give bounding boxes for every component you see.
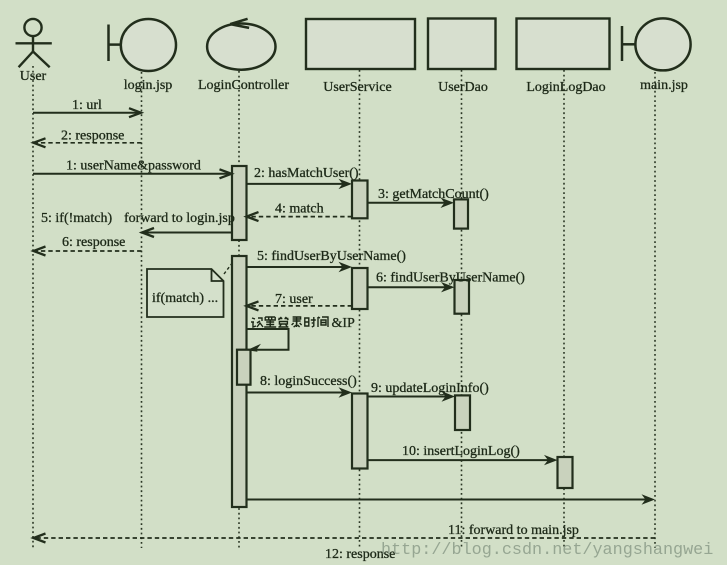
object UserService [306,19,415,69]
message 12: response [34,534,656,563]
activation UserService 1 [352,181,368,219]
svg-text:11: forward to main.jsp: 11: forward to main.jsp [448,523,579,538]
svg-text:main.jsp: main.jsp [640,78,688,93]
时 [305,317,316,327]
svg-text:5: findUserByUserName(): 5: findUserByUserName() [257,249,406,264]
label set login time (CJK) [251,317,328,327]
wire lifeline login.jsp [141,72,143,548]
note if(match) [147,262,233,317]
message 3: getMatchCount() [368,187,490,208]
message 1: userName&password [33,159,232,179]
message self set login time [247,329,289,352]
录 [292,317,302,327]
message 4: match [247,202,353,222]
activation LoginLogDao [558,457,573,488]
svg-text:6: findUserByUserName(): 6: findUserByUserName() [376,271,525,286]
lifelines [33,66,655,548]
message 10: insertLoginLog() [368,444,558,465]
svg-text:LoginController: LoginController [198,78,289,93]
置 [264,317,276,327]
wire lifeline User [32,66,34,548]
svg-text:5: if(!match): 5: if(!match) [41,211,112,226]
message 5: findUserByUserName() [247,249,407,272]
activation UserService 3 [352,394,368,469]
wire lifeline LoginController [238,71,240,548]
message 7: user [247,292,353,310]
message 2: response [34,129,142,148]
svg-text:9: updateLoginInfo(): 9: updateLoginInfo() [371,381,489,396]
svg-text:http://blog.csdn.net/yangshang: http://blog.csdn.net/yangshangwei [381,541,713,560]
svg-text:UserService: UserService [323,80,391,95]
message 9: updateLoginInfo() [368,381,490,402]
svg-text:6: response: 6: response [62,235,125,250]
svg-text:2: response: 2: response [61,129,124,144]
activation LoginController nested [237,350,251,385]
svg-text:2: hasMatchUser(): 2: hasMatchUser() [254,166,359,181]
message 1: url [33,98,141,117]
message 5: if(!match) forward to login.jsp [41,211,235,237]
svg-text:3: getMatchCount(): 3: getMatchCount() [378,187,489,202]
wire lifeline UserService [359,70,361,548]
wire lifeline LoginLogDao [563,70,565,548]
设 [251,318,263,327]
object LoginLogDao [517,19,610,70]
control LoginController [207,19,275,70]
svg-text:1: url: 1: url [72,98,102,113]
svg-text:1: userName&password: 1: userName&password [66,159,201,174]
activation UserDao 1 [454,199,468,228]
activation UserDao 2 [455,280,470,314]
activation LoginController 1 [232,166,247,240]
svg-text:User: User [20,69,47,84]
svg-text:if(match) ...: if(match) ... [152,291,218,306]
svg-text:LoginLogDao: LoginLogDao [526,80,605,95]
svg-text:&IP: &IP [332,316,356,331]
boundary login.jsp [109,19,177,71]
activation UserService 2 [352,268,368,309]
object UserDao [428,19,496,70]
svg-text:10: insertLoginLog(): 10: insertLoginLog() [402,444,520,459]
间 [318,317,328,327]
登 [278,317,288,327]
svg-text:7: user: 7: user [275,292,313,307]
message 8: loginSuccess() [247,374,357,398]
activation UserDao 3 [455,395,470,430]
message to main.jsp [247,494,656,504]
boundary main.jsp [622,18,691,70]
svg-text:UserDao: UserDao [438,80,488,95]
message 2: hasMatchUser() [247,166,359,189]
activation LoginController 2 [232,256,247,507]
message 6: response [34,235,142,256]
actor User [16,19,52,67]
svg-text:forward to login.jsp: forward to login.jsp [124,211,235,226]
wire lifeline UserDao [461,70,463,548]
svg-text:4: match: 4: match [275,202,324,217]
svg-text:login.jsp: login.jsp [124,78,173,93]
wire lifeline main.jsp [654,72,656,548]
svg-text:8: loginSuccess(): 8: loginSuccess() [260,374,357,389]
message 6: findUserByUserName() [368,271,526,293]
